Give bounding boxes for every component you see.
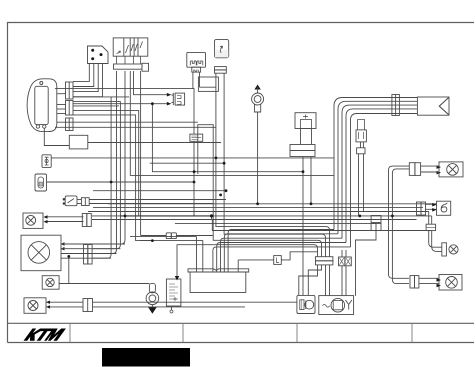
- wires CDI to connector strips: [57, 94, 67, 114]
- dimmer connector top: [290, 113, 316, 296]
- ignition coil: [215, 39, 229, 73]
- magneto connector (3 dots): [73, 46, 108, 97]
- vertical trunk wires from kill switch: [93, 71, 167, 258]
- L-bend bundle to right connector: [334, 98, 417, 247]
- headlight: [21, 235, 125, 271]
- headlight switch box: [297, 295, 315, 313]
- ground ring: [146, 283, 159, 314]
- right vertical to flasher Y: [356, 216, 382, 296]
- battery feed bends from left: [130, 237, 203, 272]
- spark plug ring terminal: [252, 85, 264, 204]
- tail lamp: [389, 162, 464, 284]
- indicator lamp 1: [23, 213, 91, 228]
- wires magneto down-left: [73, 64, 89, 82]
- neutral small lamp: [442, 243, 458, 256]
- CDI unit U1: [27, 79, 57, 132]
- title block dividers: [70, 323, 412, 342]
- battery tall box (voltage regulator): [166, 276, 181, 313]
- box above fuse: [198, 77, 218, 91]
- inline fuse near battery: [238, 252, 317, 272]
- double X connector: [339, 250, 352, 296]
- main harness horizontals (top band): [55, 89, 303, 241]
- small inline connector mid-left: [166, 233, 176, 239]
- position lamp: [42, 256, 149, 289]
- harness clamp: [392, 95, 400, 116]
- left column: relay box: [44, 129, 221, 149]
- connector pair mid-right: [356, 120, 366, 216]
- speedo lamp 6-box: [417, 201, 451, 251]
- connector pair left: [63, 196, 226, 206]
- KTM logo: [24, 329, 66, 341]
- connector strip blocks: [66, 82, 74, 131]
- rear turn lamp: [410, 275, 462, 291]
- small fuse box mid: [190, 134, 203, 141]
- black censor rectangle: [102, 348, 190, 367]
- mid horizontals band: [47, 163, 437, 223]
- flasher / horn unit: [319, 296, 354, 315]
- kill switch block: [113, 38, 148, 71]
- headlight wires to switches: [177, 73, 333, 296]
- battery: [188, 269, 249, 293]
- fuse box F1: [187, 52, 216, 88]
- brake switch: [42, 155, 334, 168]
- inline connector with arrows: [167, 93, 185, 106]
- main connector right: [417, 97, 449, 115]
- horn switch / flasher unit: [35, 174, 194, 191]
- coil loop wires: [198, 125, 431, 231]
- front turn lamp bottom: [24, 298, 297, 314]
- nested bend bundle right to battery: [213, 230, 351, 273]
